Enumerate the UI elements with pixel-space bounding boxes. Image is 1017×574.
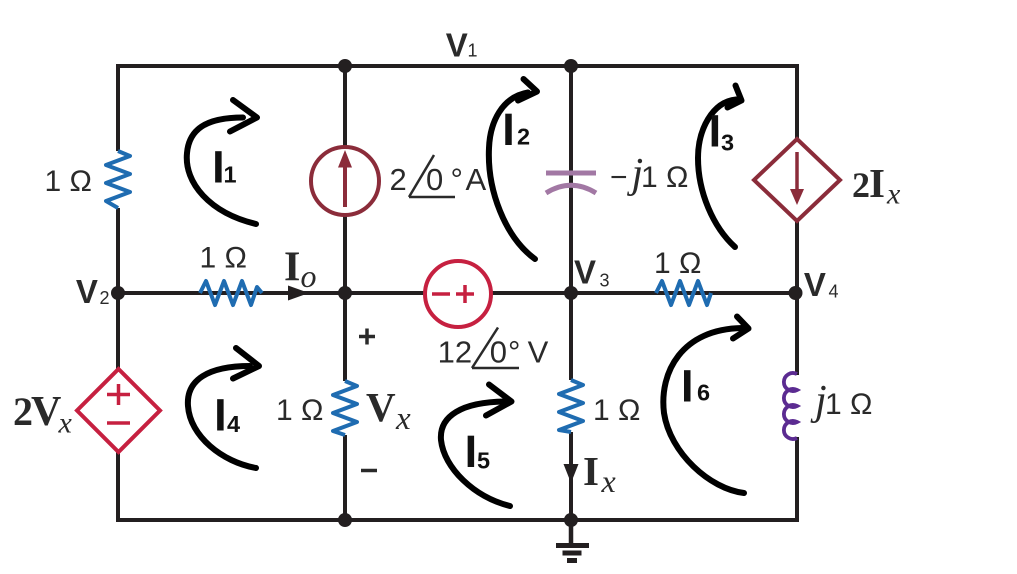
svg-text:1 Ω: 1 Ω [825, 388, 872, 421]
svg-text:x: x [58, 407, 73, 440]
capacitor -j1 top plate [546, 171, 596, 176]
ground [569, 520, 574, 543]
wire right vertical upper [795, 64, 799, 140]
svg-text:1: 1 [224, 161, 237, 187]
dependent voltage source 2Vx diamond [77, 369, 160, 452]
svg-text:x: x [395, 401, 411, 437]
node top-left junction [338, 59, 352, 73]
svg-text:2: 2 [517, 124, 530, 150]
svg-text:I: I [214, 390, 227, 441]
voltage source plus sign [456, 292, 474, 296]
svg-text:x: x [886, 178, 901, 211]
svg-text:V: V [366, 384, 396, 430]
svg-text:4: 4 [227, 411, 240, 437]
wire x=571 vertical top segment (through capacitor) [569, 66, 573, 380]
node V3 [564, 286, 578, 300]
resistor 1ohm middle-right horizontal [656, 281, 711, 305]
node bottom x=571 (ground node) [564, 513, 578, 527]
svg-text:1 Ω: 1 Ω [593, 394, 640, 427]
wire x=345 vertical mid segment [343, 214, 347, 381]
resistor 1ohm Ix vertical [559, 380, 583, 432]
svg-text:I: I [709, 105, 722, 156]
svg-text:1 Ω: 1 Ω [200, 242, 247, 275]
wire x=345 vertical bottom segment [343, 435, 347, 520]
svg-text:3: 3 [721, 130, 734, 156]
svg-text:I: I [284, 245, 300, 291]
svg-text:°: ° [508, 335, 520, 370]
voltage source 12V circle [425, 261, 491, 327]
svg-text:I: I [583, 448, 599, 494]
current source 2A circle [311, 147, 379, 215]
node top-right junction [564, 59, 578, 73]
wire middle horizontal right of voltage source [490, 291, 797, 295]
svg-text:I: I [502, 104, 515, 155]
svg-text:I: I [681, 360, 694, 411]
svg-text:V: V [76, 273, 98, 310]
dependent voltage source minus [107, 421, 130, 425]
wire right vertical lower [795, 437, 799, 522]
svg-text:6: 6 [697, 380, 710, 406]
svg-text:I: I [869, 160, 885, 206]
mesh arrow I4 [188, 366, 256, 468]
svg-text:4: 4 [829, 282, 839, 302]
mesh arrow I2 [489, 93, 535, 260]
svg-text:A: A [466, 162, 487, 197]
resistor 1ohm Vx vertical [333, 381, 357, 435]
mesh arrow I3 [698, 100, 736, 248]
svg-text:0: 0 [490, 335, 507, 370]
svg-text:V: V [804, 266, 826, 303]
svg-text:x: x [601, 463, 616, 499]
svg-text:0: 0 [426, 162, 443, 197]
svg-text:1: 1 [468, 41, 478, 61]
wire left vertical middle [116, 208, 120, 370]
wire middle horizontal left of voltage source [118, 291, 426, 295]
node V2 [111, 286, 125, 300]
resistor 1ohm left vertical [106, 151, 130, 208]
svg-text:1 Ω: 1 Ω [654, 247, 701, 280]
resistor 1ohm middle-left horizontal [200, 281, 262, 305]
inductor j1 coil [784, 373, 797, 439]
node bottom x=345 [338, 513, 352, 527]
voltage source minus sign [432, 292, 450, 296]
svg-text:5: 5 [477, 448, 490, 474]
mesh arrow I1 [187, 118, 256, 225]
svg-text:2: 2 [852, 165, 870, 205]
mesh arrow I6 [663, 328, 744, 493]
svg-text:V: V [446, 27, 468, 64]
wire left vertical upper [116, 64, 120, 151]
mesh arrow I5 [441, 402, 510, 507]
svg-text:V: V [528, 335, 549, 370]
wire top horizontal [116, 64, 799, 68]
node mid junction x=345 [338, 286, 352, 300]
wire bottom horizontal [116, 518, 799, 522]
svg-text:2: 2 [390, 162, 407, 197]
svg-text:2: 2 [13, 389, 33, 434]
arrow Ix on wire [564, 464, 579, 483]
label plus Vx [359, 335, 375, 339]
svg-text:V: V [31, 389, 61, 435]
wire x=571 vertical bottom segment [569, 432, 573, 520]
dependent current source 2Ix diamond [754, 139, 840, 221]
svg-text:1 Ω: 1 Ω [276, 394, 323, 427]
svg-text:°: ° [451, 162, 463, 197]
current source 2A arrow [343, 163, 347, 207]
wire x=345 vertical top segment [343, 66, 347, 148]
svg-text:3: 3 [600, 271, 610, 291]
svg-text:12: 12 [438, 335, 472, 370]
node V4 [789, 286, 803, 300]
capacitor -j1 bottom plate [546, 185, 596, 193]
svg-text:I: I [465, 426, 478, 477]
label minus Vx [361, 469, 377, 473]
dependent voltage source plus [107, 393, 130, 397]
svg-text:V: V [574, 254, 596, 291]
svg-text:o: o [301, 258, 317, 294]
wire left vertical lower [116, 450, 120, 522]
arrow Io on middle wire [288, 286, 309, 301]
dependent current source 2Ix arrow [795, 152, 799, 193]
svg-text:−: − [610, 161, 628, 194]
svg-text:1 Ω: 1 Ω [45, 165, 92, 198]
svg-text:2: 2 [100, 288, 110, 308]
wire right vertical middle [795, 220, 799, 375]
svg-text:1 Ω: 1 Ω [641, 161, 688, 194]
